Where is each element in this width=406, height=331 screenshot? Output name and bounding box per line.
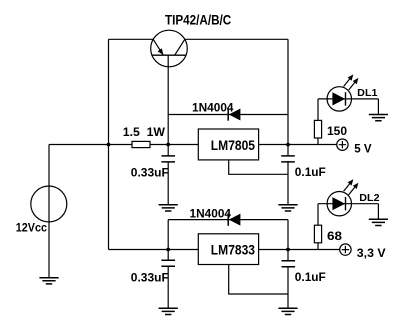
svg-text:LM7805: LM7805	[211, 138, 256, 153]
svg-text:1N4004: 1N4004	[192, 100, 234, 114]
svg-text:LM7833: LM7833	[211, 243, 256, 258]
svg-text:TIP42/A/B/C: TIP42/A/B/C	[165, 12, 231, 27]
svg-text:0.33uF: 0.33uF	[131, 270, 169, 284]
svg-text:1N4004: 1N4004	[190, 207, 232, 221]
svg-text:5 V: 5 V	[354, 141, 371, 155]
svg-text:0.33uF: 0.33uF	[131, 166, 169, 180]
svg-text:3,3 V: 3,3 V	[357, 246, 386, 260]
svg-text:150: 150	[327, 124, 347, 138]
svg-text:0.1uF: 0.1uF	[295, 270, 326, 284]
svg-text:0.1uF: 0.1uF	[295, 165, 326, 179]
svg-text:DL1: DL1	[357, 87, 377, 99]
svg-text:12Vcc: 12Vcc	[16, 220, 47, 234]
svg-text:1.5 1W: 1.5 1W	[123, 125, 166, 139]
svg-text:68: 68	[327, 229, 342, 243]
svg-text:DL2: DL2	[359, 192, 379, 204]
